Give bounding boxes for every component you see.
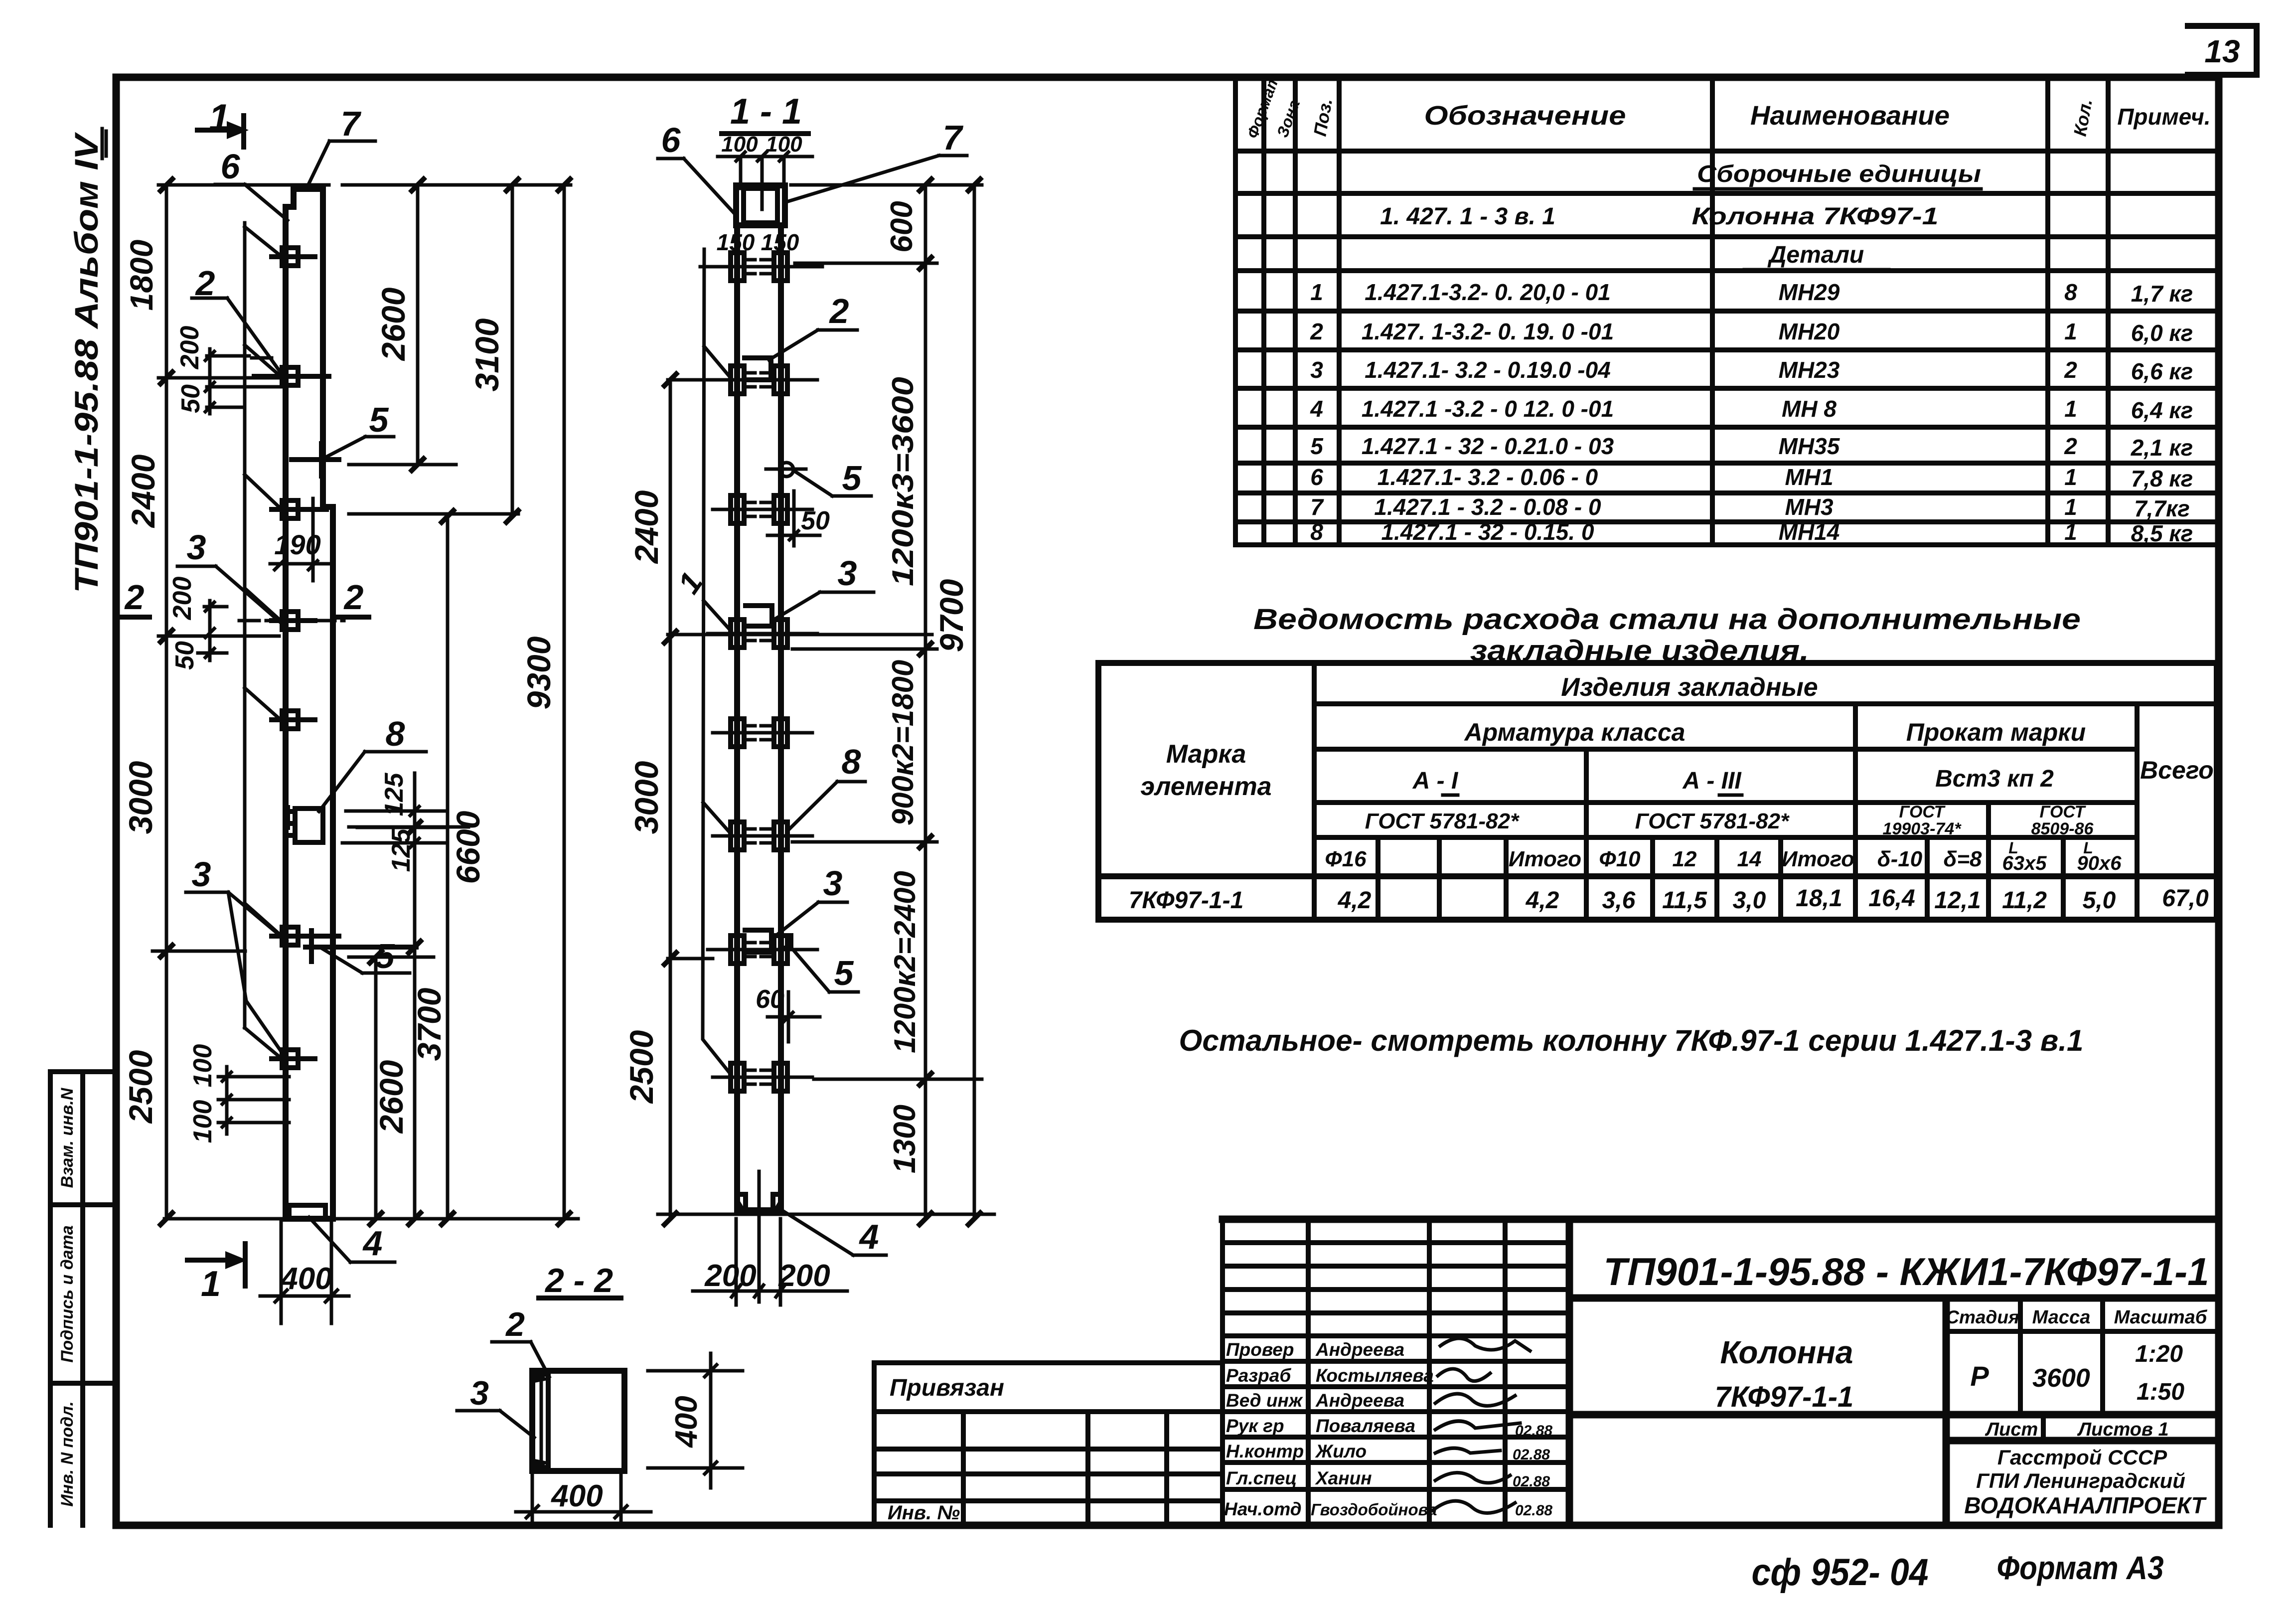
svg-text:элемента: элемента xyxy=(1140,772,1271,801)
svg-text:МН 8: МН 8 xyxy=(1782,396,1837,422)
svg-text:2 - 2: 2 - 2 xyxy=(544,1262,613,1299)
svg-text:1:50: 1:50 xyxy=(2137,1379,2184,1405)
privyazan box xyxy=(874,1363,1223,1525)
svg-text:Взам. инв.N: Взам. инв.N xyxy=(58,1087,77,1188)
svg-text:11,2: 11,2 xyxy=(2002,887,2047,914)
label 7 section xyxy=(786,118,967,202)
svg-text:Андреева: Андреева xyxy=(1315,1339,1404,1360)
column body (section) xyxy=(737,225,781,1210)
svg-text:5: 5 xyxy=(834,954,854,992)
dimension chain 1800/2400/3000/2500 xyxy=(122,179,172,1225)
small dims 200/50 group B xyxy=(168,577,227,670)
svg-text:Ханин: Ханин xyxy=(1315,1468,1372,1488)
svg-text:02.88: 02.88 xyxy=(1513,1447,1550,1463)
svg-text:L: L xyxy=(2083,839,2093,857)
label 6 xyxy=(215,147,288,220)
svg-text:Стадия: Стадия xyxy=(1946,1307,2019,1327)
section cut 2 marks xyxy=(119,578,369,617)
svg-text:Арматура класса: Арматура класса xyxy=(1464,718,1685,746)
svg-text:7КФ97-1-1: 7КФ97-1-1 xyxy=(1129,887,1244,914)
svg-text:8,5 кг: 8,5 кг xyxy=(2131,520,2193,546)
svg-text:2500: 2500 xyxy=(623,1030,660,1104)
svg-text:3: 3 xyxy=(823,864,843,903)
svg-text:1: 1 xyxy=(201,1264,221,1304)
svg-text:Привязан: Привязан xyxy=(890,1375,1004,1401)
label 7 xyxy=(307,104,375,187)
svg-text:6,6 кг: 6,6 кг xyxy=(2131,358,2193,384)
svg-text:δ=8: δ=8 xyxy=(1943,847,1982,871)
svg-text:1.427.1-3.2- 0. 20,0 - 01: 1.427.1-3.2- 0. 20,0 - 01 xyxy=(1365,279,1611,305)
svg-text:3100: 3100 xyxy=(468,318,505,391)
svg-text:16,4: 16,4 xyxy=(1868,885,1915,912)
svg-text:2,1 кг: 2,1 кг xyxy=(2131,435,2193,461)
left margin attachment boxes xyxy=(50,1072,116,1525)
svg-text:60: 60 xyxy=(756,985,784,1014)
svg-text:12,1: 12,1 xyxy=(1934,887,1981,914)
svg-text:1.427.1- 3.2 - 0.19.0 -04: 1.427.1- 3.2 - 0.19.0 -04 xyxy=(1365,357,1611,383)
svg-text:Рук гр: Рук гр xyxy=(1226,1416,1284,1436)
label 3 section xyxy=(774,554,874,620)
svg-text:11,5: 11,5 xyxy=(1662,887,1707,914)
dim 400 bottom (2-2) xyxy=(516,1473,651,1521)
svg-text:Масса: Масса xyxy=(2032,1307,2091,1328)
svg-text:2500: 2500 xyxy=(122,1050,159,1124)
label 5 lower section xyxy=(793,950,858,992)
svg-text:5: 5 xyxy=(1310,433,1324,459)
svg-text:5,0: 5,0 xyxy=(2083,887,2116,914)
svg-text:Детали: Детали xyxy=(1767,242,1864,268)
svg-text:Колонна: Колонна xyxy=(1720,1334,1853,1370)
svg-text:Инв. N подл.: Инв. N подл. xyxy=(58,1401,77,1507)
section dim 9700 xyxy=(933,179,980,1225)
svg-text:18,1: 18,1 xyxy=(1796,885,1842,912)
svg-text:1: 1 xyxy=(2064,519,2077,545)
svg-text:1.427.1 - 32 - 0.21.0 - 03: 1.427.1 - 32 - 0.21.0 - 03 xyxy=(1362,433,1614,459)
svg-text:3700: 3700 xyxy=(411,987,448,1061)
svg-text:2400: 2400 xyxy=(628,490,665,564)
label 3 lower section xyxy=(774,864,847,937)
svg-text:900к2=1800: 900к2=1800 xyxy=(886,660,919,825)
svg-text:А - I: А - I xyxy=(1412,768,1459,794)
svg-text:Гвоздобойнова: Гвоздобойнова xyxy=(1311,1500,1437,1519)
svg-text:Листов 1: Листов 1 xyxy=(2077,1419,2169,1440)
dim 400 bottom xyxy=(260,1221,349,1323)
svg-text:1200к3=3600: 1200к3=3600 xyxy=(886,377,919,586)
svg-text:1300: 1300 xyxy=(888,1105,922,1173)
svg-text:Итого: Итого xyxy=(1782,847,1854,871)
svg-text:100: 100 xyxy=(188,1100,217,1143)
svg-text:14: 14 xyxy=(1737,847,1762,871)
dim 60 section xyxy=(756,985,820,1042)
svg-text:1200к2=2400: 1200к2=2400 xyxy=(888,871,921,1053)
svg-text:6: 6 xyxy=(221,147,241,186)
svg-text:8: 8 xyxy=(842,742,861,781)
svg-text:ТП901-1-95.88 - КЖИ1-7КФ97-1-1: ТП901-1-95.88 - КЖИ1-7КФ97-1-1 xyxy=(1604,1250,2209,1294)
vedomost heading xyxy=(1253,603,2081,667)
svg-text:2600: 2600 xyxy=(373,1060,410,1134)
svg-text:Изделия закладные: Изделия закладные xyxy=(1561,673,1818,702)
svg-text:3600: 3600 xyxy=(2032,1364,2090,1393)
dims 150 150 xyxy=(717,229,799,255)
svg-text:L: L xyxy=(2008,839,2018,857)
label 2 xyxy=(192,264,284,377)
svg-text:1.427.1 -3.2 - 0 12. 0 -01: 1.427.1 -3.2 - 0 12. 0 -01 xyxy=(1362,396,1614,422)
vertical stamp text top-left xyxy=(68,129,106,593)
svg-text:1: 1 xyxy=(2064,464,2077,490)
dim 400 right (2-2) xyxy=(648,1353,743,1488)
svg-text:Обозначение: Обозначение xyxy=(1424,101,1626,131)
leader spine for plates xyxy=(245,223,281,1058)
svg-text:6: 6 xyxy=(1310,464,1323,490)
dims 200/200 bottom section xyxy=(693,1219,847,1305)
svg-text:6: 6 xyxy=(661,121,681,160)
dimension 9300 xyxy=(520,179,570,1225)
svg-text:6,4 кг: 6,4 кг xyxy=(2131,397,2193,423)
svg-text:Вст3 кп 2: Вст3 кп 2 xyxy=(1935,766,2054,792)
svg-text:1.427.1 - 32 - 0.15. 0: 1.427.1 - 32 - 0.15. 0 xyxy=(1381,519,1594,545)
svg-text:100: 100 xyxy=(721,132,758,157)
label 5 + hook xyxy=(766,459,871,497)
svg-text:4,2: 4,2 xyxy=(1526,887,1559,914)
svg-text:1: 1 xyxy=(2064,319,2077,344)
svg-text:Остальное- смотреть колонну: Остальное- смотреть колонну 7КФ.97-1 сер… xyxy=(1179,1024,2084,1057)
extension lines left view xyxy=(153,185,578,1219)
label 2 (2-2) xyxy=(492,1305,549,1377)
svg-text:МН35: МН35 xyxy=(1779,433,1840,459)
svg-text:7: 7 xyxy=(1310,494,1324,520)
dim 50 section xyxy=(767,491,830,546)
svg-text:ГОСТ: ГОСТ xyxy=(2040,803,2087,821)
label 3 lower xyxy=(186,855,287,1056)
svg-text:8: 8 xyxy=(386,714,405,753)
svg-text:Итого: Итого xyxy=(1509,847,1581,871)
svg-text:Всего: Всего xyxy=(2140,756,2214,784)
dimension 3100 xyxy=(468,179,518,522)
label 4 section xyxy=(783,1211,886,1256)
svg-text:Инв. №: Инв. № xyxy=(888,1502,960,1524)
label 5 lower xyxy=(306,931,416,975)
label 4 xyxy=(309,1217,395,1263)
label 3 (2-2) xyxy=(457,1374,534,1438)
section arrow 1 (bottom) xyxy=(187,1244,247,1304)
svg-text:Примеч.: Примеч. xyxy=(2117,104,2210,130)
svg-text:Н.контр: Н.контр xyxy=(1226,1441,1304,1461)
svg-text:1: 1 xyxy=(209,97,230,139)
svg-text:А - III: А - III xyxy=(1682,768,1742,794)
dims 100 100 top xyxy=(718,132,812,209)
bottom base plate pos4 (left view) xyxy=(289,1205,325,1216)
svg-text:ГОСТ 5781-82*: ГОСТ 5781-82* xyxy=(1365,809,1520,833)
label 1 (spine) xyxy=(671,566,709,600)
embedded plates on left face xyxy=(254,248,339,1068)
svg-text:Ф10: Ф10 xyxy=(1599,847,1641,871)
svg-text:сф 952- 04: сф 952- 04 xyxy=(1752,1551,1929,1594)
note text xyxy=(1179,1024,2084,1057)
svg-text:МН1: МН1 xyxy=(1785,464,1833,490)
svg-text:Подпись и дата: Подпись и дата xyxy=(58,1225,77,1363)
svg-text:7,7кг: 7,7кг xyxy=(2134,495,2190,521)
bottom corner plates section xyxy=(737,1171,781,1302)
svg-text:3,0: 3,0 xyxy=(1733,887,1766,914)
dimension 6600 xyxy=(442,510,486,1225)
svg-text:Ведомость расхода стали: Ведомость расхода стали на дополнительны… xyxy=(1253,603,2081,636)
svg-text:4: 4 xyxy=(859,1217,879,1256)
svg-text:1: 1 xyxy=(1310,279,1323,305)
section arrow 1 (top) xyxy=(197,97,249,147)
svg-text:1800: 1800 xyxy=(124,240,159,311)
svg-text:3000: 3000 xyxy=(122,761,159,834)
svg-text:9300: 9300 xyxy=(520,636,557,709)
svg-text:12: 12 xyxy=(1673,847,1697,871)
svg-text:2: 2 xyxy=(829,292,849,330)
svg-text:Поваляева: Поваляева xyxy=(1316,1416,1415,1436)
svg-text:МН29: МН29 xyxy=(1779,279,1840,305)
svg-text:125: 125 xyxy=(387,828,416,872)
label 2 section xyxy=(769,292,857,360)
dims 125/125 xyxy=(342,773,448,872)
svg-text:3: 3 xyxy=(187,528,206,567)
svg-text:Колонна 7КФ97-1: Колонна 7КФ97-1 xyxy=(1692,203,1939,230)
svg-text:100: 100 xyxy=(188,1044,217,1088)
section left chain 2400/3000/2500 xyxy=(623,374,676,1225)
svg-text:8: 8 xyxy=(1310,519,1323,545)
svg-text:Нач.отд: Нач.отд xyxy=(1224,1499,1302,1519)
svg-text:2: 2 xyxy=(124,578,145,617)
svg-text:Провер: Провер xyxy=(1226,1339,1294,1360)
svg-text:50: 50 xyxy=(801,506,830,535)
svg-text:400: 400 xyxy=(550,1479,603,1513)
svg-text:6600: 6600 xyxy=(450,810,486,884)
svg-text:4,2: 4,2 xyxy=(1338,887,1372,914)
svg-text:ГПИ Ленинградский: ГПИ Ленинградский xyxy=(1976,1469,2185,1492)
svg-text:8: 8 xyxy=(2064,279,2077,305)
dims 100/100 xyxy=(188,1044,289,1143)
svg-text:7,8 кг: 7,8 кг xyxy=(2131,466,2193,491)
svg-text:МН23: МН23 xyxy=(1779,357,1840,383)
svg-text:Лист: Лист xyxy=(1985,1419,2038,1440)
signature table xyxy=(1223,1219,1569,1525)
svg-text:Сборочные единицы: Сборочные единицы xyxy=(1697,161,1981,187)
label 5 with tick xyxy=(292,400,394,476)
svg-text:Р: Р xyxy=(1970,1360,1989,1392)
svg-text:Марка: Марка xyxy=(1166,740,1246,769)
svg-text:100: 100 xyxy=(765,132,802,157)
svg-text:Вед инж: Вед инж xyxy=(1226,1390,1303,1411)
svg-text:Гл.спец: Гл.спец xyxy=(1226,1468,1297,1488)
svg-text:2: 2 xyxy=(343,578,364,617)
svg-text:1 - 1: 1 - 1 xyxy=(730,92,802,132)
label 8 section xyxy=(790,742,865,828)
plate levels section xyxy=(700,253,822,281)
svg-text:МН14: МН14 xyxy=(1779,519,1840,545)
svg-text:ГОСТ 5781-82*: ГОСТ 5781-82* xyxy=(1635,809,1790,833)
svg-text:2400: 2400 xyxy=(125,454,161,528)
svg-text:ТП901-1-95.88 Альбом IV: ТП901-1-95.88 Альбом IV xyxy=(68,132,105,593)
section extension lines xyxy=(658,185,994,1214)
svg-text:7: 7 xyxy=(943,118,964,157)
svg-text:200: 200 xyxy=(175,326,204,370)
svg-text:Наименование: Наименование xyxy=(1750,101,1950,131)
signatures squiggles xyxy=(1433,1338,1530,1513)
svg-text:200: 200 xyxy=(778,1259,830,1293)
svg-text:5: 5 xyxy=(842,459,862,497)
svg-text:400: 400 xyxy=(669,1396,704,1448)
title 2-2 xyxy=(539,1262,621,1299)
svg-text:3: 3 xyxy=(192,855,211,894)
svg-text:200: 200 xyxy=(168,577,197,621)
svg-text:4: 4 xyxy=(362,1224,383,1263)
square section outline xyxy=(532,1371,624,1471)
svg-text:50: 50 xyxy=(170,641,199,670)
chain line marks xyxy=(239,358,344,621)
svg-text:2: 2 xyxy=(2064,433,2077,459)
svg-text:Ф16: Ф16 xyxy=(1325,847,1367,871)
svg-text:1.427.1 - 3.2 - 0.08 - 0: 1.427.1 - 3.2 - 0.08 - 0 xyxy=(1374,494,1601,520)
svg-text:Гасстрой СССР: Гасстрой СССР xyxy=(1997,1446,2167,1469)
svg-text:3000: 3000 xyxy=(628,761,665,834)
leader spine section xyxy=(703,249,731,1074)
svg-text:Андреева: Андреева xyxy=(1315,1390,1404,1411)
spec rows xyxy=(1310,161,2193,546)
svg-text:Формат А3: Формат А3 xyxy=(1997,1549,2164,1586)
svg-text:19903-74*: 19903-74* xyxy=(1883,819,1962,838)
label 6 section xyxy=(658,121,736,215)
svg-text:02.88: 02.88 xyxy=(1515,1502,1552,1519)
title 1-1 xyxy=(722,92,808,134)
small dims 200/50 group A xyxy=(175,326,284,414)
dimension 2600 xyxy=(375,179,424,471)
page number box 13 xyxy=(2188,26,2257,75)
svg-text:1.427.1- 3.2 - 0.06 - 0: 1.427.1- 3.2 - 0.06 - 0 xyxy=(1378,464,1598,490)
svg-text:1,7 кг: 1,7 кг xyxy=(2131,281,2193,307)
svg-text:2600: 2600 xyxy=(375,287,412,361)
svg-text:3,6: 3,6 xyxy=(1602,887,1636,914)
svg-text:8509-86: 8509-86 xyxy=(2031,819,2094,838)
dimension 3700 xyxy=(409,773,448,1225)
label 8 xyxy=(319,714,426,811)
svg-text:Жило: Жило xyxy=(1315,1441,1367,1461)
svg-text:Масштаб: Масштаб xyxy=(2114,1307,2208,1328)
label 3 xyxy=(177,528,284,626)
svg-text:МН3: МН3 xyxy=(1785,494,1834,520)
svg-text:1. 427. 1 - 3 в. 1: 1. 427. 1 - 3 в. 1 xyxy=(1380,203,1555,230)
main title block xyxy=(1569,1219,2219,1525)
svg-text:Прокат марки: Прокат марки xyxy=(1906,718,2086,746)
svg-text:2: 2 xyxy=(1310,319,1323,344)
svg-text:1:20: 1:20 xyxy=(2135,1341,2183,1367)
svg-text:МН20: МН20 xyxy=(1779,319,1840,344)
svg-text:Разраб: Разраб xyxy=(1226,1365,1291,1386)
big plate pos8 xyxy=(288,808,323,842)
svg-text:3: 3 xyxy=(1310,357,1323,383)
column cap xyxy=(736,185,785,225)
svg-text:2: 2 xyxy=(2064,357,2077,383)
dim 190 xyxy=(270,498,329,581)
svg-text:5: 5 xyxy=(369,400,389,439)
bottom annotations xyxy=(1752,1549,2164,1594)
svg-text:13: 13 xyxy=(2204,33,2240,69)
svg-text:7: 7 xyxy=(341,104,362,143)
svg-text:1: 1 xyxy=(2064,494,2077,520)
svg-text:2: 2 xyxy=(505,1305,525,1343)
svg-text:δ-10: δ-10 xyxy=(1877,847,1923,871)
svg-text:50: 50 xyxy=(176,384,205,413)
dimension 2600 lower xyxy=(370,951,410,1225)
svg-text:Костыляева: Костыляева xyxy=(1316,1365,1434,1386)
svg-text:ВОДОКАНАЛПРОЕКТ: ВОДОКАНАЛПРОЕКТ xyxy=(1964,1492,2207,1518)
svg-text:3: 3 xyxy=(470,1374,489,1412)
svg-text:7КФ97-1-1: 7КФ97-1-1 xyxy=(1715,1381,1854,1413)
section dims right chain xyxy=(885,179,931,1225)
column outline (left elevation) xyxy=(286,189,333,1219)
svg-text:600: 600 xyxy=(885,201,919,252)
svg-text:1: 1 xyxy=(2064,396,2077,422)
svg-text:6,0 кг: 6,0 кг xyxy=(2131,320,2193,346)
svg-text:67,0: 67,0 xyxy=(2162,885,2209,912)
svg-text:02.88: 02.88 xyxy=(1513,1473,1550,1490)
svg-text:1.427. 1-3.2- 0. 19. 0 -01: 1.427. 1-3.2- 0. 19. 0 -01 xyxy=(1362,319,1614,344)
svg-text:02.88: 02.88 xyxy=(1515,1423,1552,1439)
svg-text:200: 200 xyxy=(704,1259,756,1293)
svg-text:ГОСТ: ГОСТ xyxy=(1899,803,1946,821)
svg-text:3: 3 xyxy=(838,554,857,593)
svg-text:9700: 9700 xyxy=(933,579,970,652)
svg-text:4: 4 xyxy=(1310,396,1323,422)
